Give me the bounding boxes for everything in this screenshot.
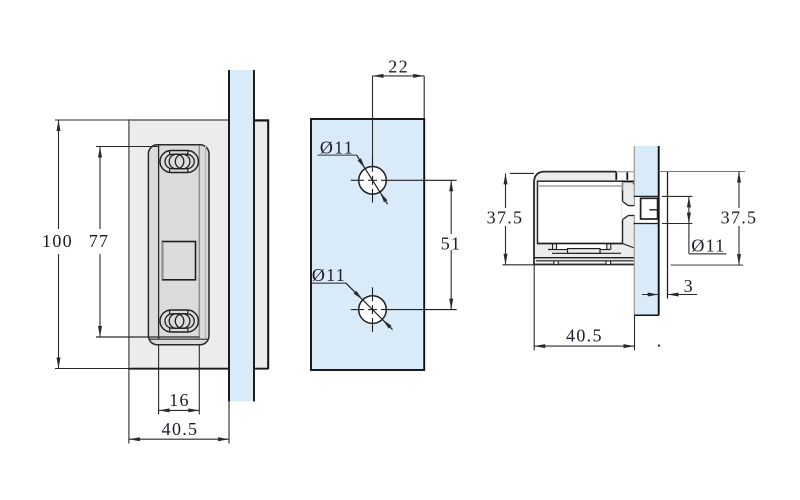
svg-text:37.5: 37.5 xyxy=(487,207,524,227)
svg-text:100: 100 xyxy=(42,231,73,251)
svg-text:40.5: 40.5 xyxy=(566,325,603,345)
svg-text:22: 22 xyxy=(388,56,409,76)
svg-text:Ø11: Ø11 xyxy=(691,236,725,256)
svg-text:77: 77 xyxy=(89,231,110,251)
svg-text:3: 3 xyxy=(684,276,694,296)
svg-text:16: 16 xyxy=(169,390,190,410)
svg-text:37.5: 37.5 xyxy=(721,207,758,227)
svg-text:Ø11: Ø11 xyxy=(320,137,354,157)
svg-text:40.5: 40.5 xyxy=(162,419,199,439)
svg-text:Ø11: Ø11 xyxy=(312,265,346,285)
svg-text:51: 51 xyxy=(441,234,462,254)
